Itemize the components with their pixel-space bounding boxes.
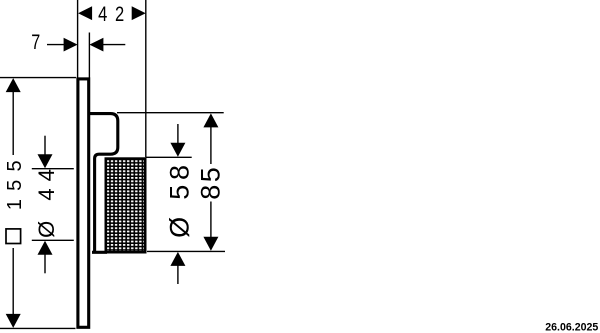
dimension dia44: top tail xyxy=(44,136,46,156)
handle bottom edge segment xyxy=(92,251,107,254)
extension line: dia58 top xyxy=(146,156,192,158)
extension line: plate right face (vertical) xyxy=(88,33,90,78)
extension line: plate left face (vertical, from top) xyxy=(77,0,79,78)
extension line: dia44 bottom xyxy=(32,239,74,241)
svg-text:Ø 58: Ø 58 xyxy=(165,160,195,238)
dimension dia44: top arrow pointing down xyxy=(38,154,53,168)
dimension dia44: bottom tail xyxy=(44,254,46,273)
svg-text:Ø 44: Ø 44 xyxy=(34,162,59,238)
svg-text:7: 7 xyxy=(31,30,40,54)
extension line: shared bottom (dia58 + 85) xyxy=(147,250,225,252)
svg-text:42: 42 xyxy=(98,3,132,27)
svg-text:155: 155 xyxy=(4,152,26,210)
square symbol for 155 xyxy=(6,229,21,244)
dimension dia58: top tail xyxy=(177,124,179,144)
dimension 85: line lower segment xyxy=(210,202,212,239)
extension line: knurl front face (vertical, from top) xyxy=(145,0,147,157)
dimension 42: right arrow xyxy=(132,6,146,20)
knurled grip xyxy=(106,159,145,253)
dimension 85: top arrow pointing up xyxy=(203,113,218,127)
dimension 7: left arrow pointing right xyxy=(64,38,78,52)
dimension 155: line upper segment xyxy=(12,91,14,155)
dimension dia44: bottom arrow pointing up xyxy=(38,241,53,255)
svg-text:26.06.2025: 26.06.2025 xyxy=(545,321,598,333)
handle profile outline xyxy=(90,114,118,253)
dimension 155: top arrow pointing up xyxy=(6,78,21,92)
svg-text:85: 85 xyxy=(196,165,226,200)
dimension 85: bottom arrow pointing down xyxy=(203,237,218,251)
plate side view rectangle xyxy=(78,79,89,327)
dimension 7: right arrow pointing left xyxy=(89,38,103,52)
dimension dia58: top arrow pointing down xyxy=(170,143,185,157)
extension line: 155 top (horizontal) xyxy=(0,77,76,79)
dimension 7: left tail xyxy=(47,44,65,46)
dimension dia58: bottom arrow pointing up xyxy=(170,252,185,266)
dimension dia58: bottom tail xyxy=(177,265,179,284)
dimension 85: line upper segment xyxy=(210,126,212,164)
dimension 7: right tail xyxy=(103,44,125,46)
extension line: dia44 top xyxy=(32,168,74,170)
extension line: 85 top xyxy=(117,112,224,114)
extension line: 155 bottom (horizontal) xyxy=(0,327,76,329)
dimension 42: left arrow xyxy=(78,6,92,20)
dimension 155: line lower segment xyxy=(12,248,14,315)
dimension 155: bottom arrow pointing down xyxy=(6,314,21,328)
